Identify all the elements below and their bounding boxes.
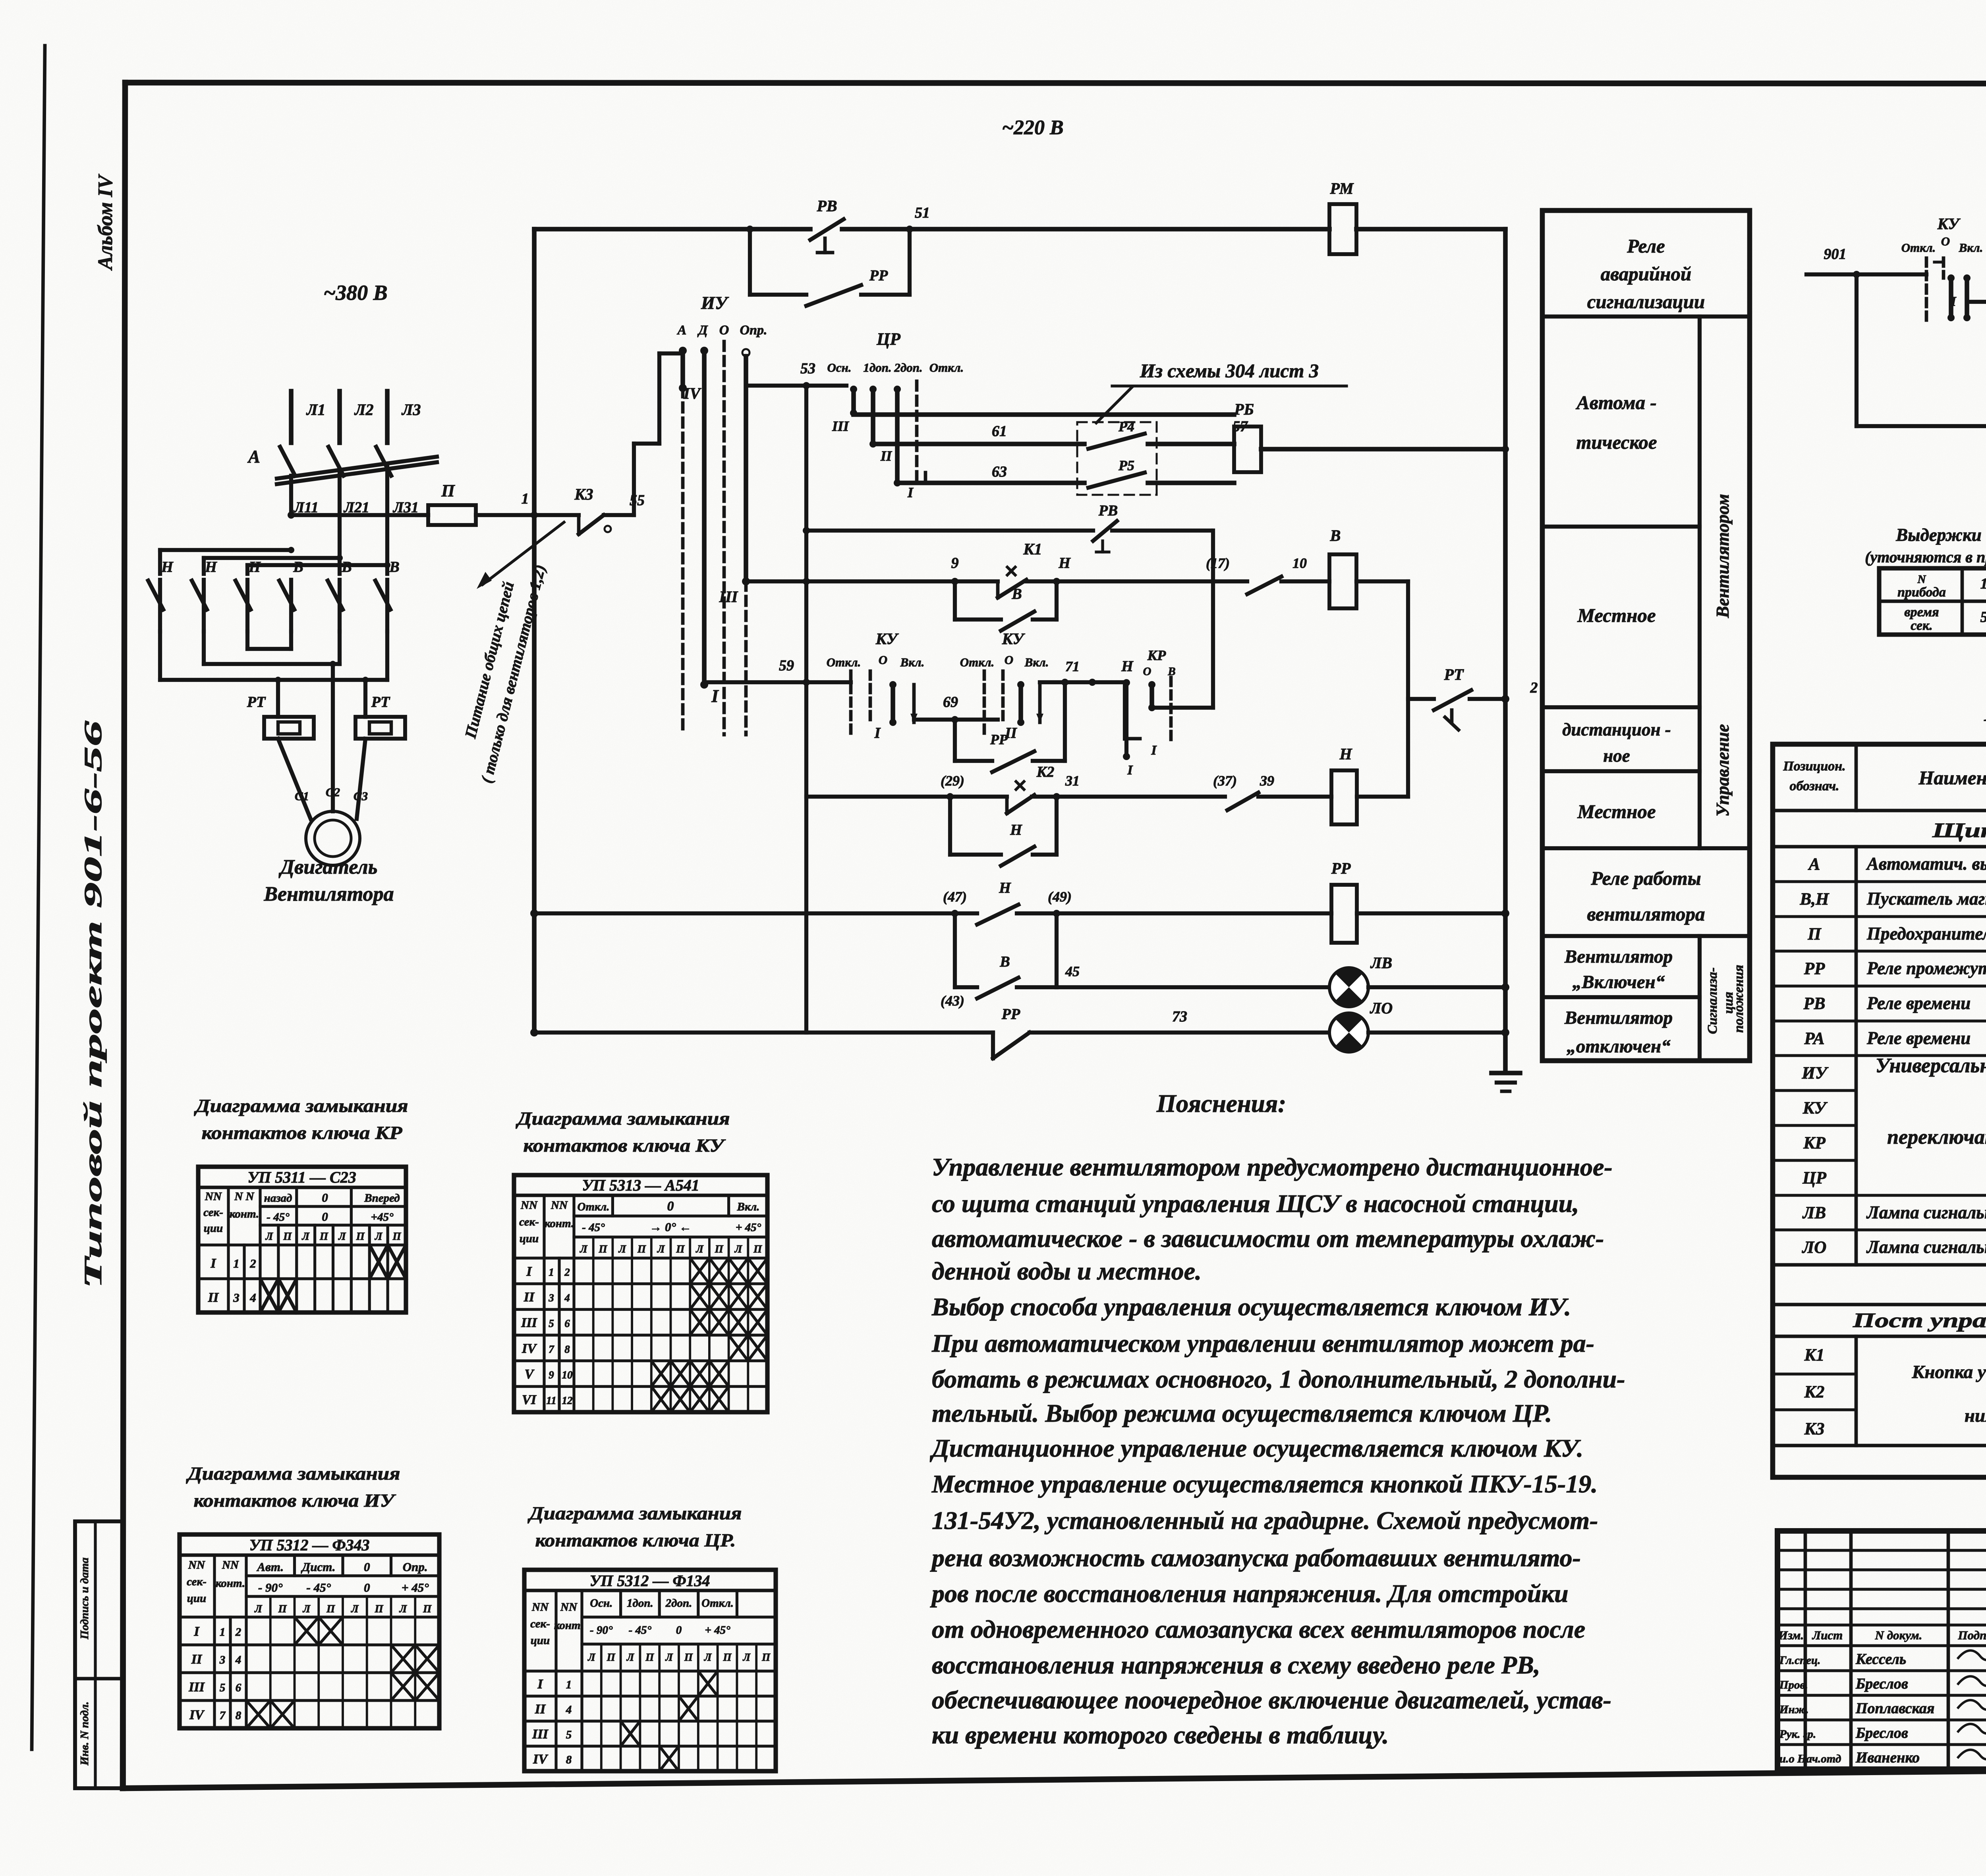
svg-text:Лист: Лист [1812, 1628, 1843, 1642]
svg-text:Поплавская: Поплавская [1855, 1700, 1934, 1717]
svg-text:Автоматич. выключат.: Автоматич. выключат. [1866, 854, 1986, 874]
svg-text:I: I [1950, 294, 1957, 309]
svg-text:IV: IV [189, 1708, 205, 1722]
svg-text:Л: Л [338, 1230, 346, 1242]
svg-text:О: О [879, 653, 887, 667]
svg-text:NN: NN [520, 1199, 538, 1212]
svg-text:конт.: конт. [216, 1577, 245, 1590]
svg-text:IV: IV [683, 384, 702, 402]
svg-text:контактов ключа ЦР.: контактов ключа ЦР. [535, 1530, 736, 1551]
svg-text:Откл.: Откл. [827, 655, 861, 669]
svg-text:Предохранитель: Предохранитель [1866, 924, 1986, 944]
svg-text:ботать в режимах основного,: ботать в режимах основного, 1 дополнител… [932, 1365, 1625, 1393]
svg-text:1: 1 [1980, 575, 1986, 592]
svg-text:1: 1 [522, 490, 529, 507]
svg-text:53: 53 [800, 360, 815, 377]
svg-text:12: 12 [562, 1395, 573, 1407]
svg-text:63: 63 [992, 463, 1007, 480]
svg-text:ИУ: ИУ [701, 293, 729, 313]
svg-text:К1: К1 [1804, 1346, 1825, 1365]
svg-text:При автоматическом управлени: При автоматическом управлении вентилятор… [931, 1329, 1594, 1357]
svg-text:УП 5312 — Ф134: УП 5312 — Ф134 [590, 1572, 710, 1590]
svg-text:РТ: РТ [371, 694, 390, 710]
svg-text:Н: Н [161, 559, 174, 575]
svg-text:III: III [188, 1680, 205, 1695]
svg-text:РА: РА [1804, 1029, 1824, 1048]
svg-text:Откл.: Откл. [701, 1597, 734, 1610]
svg-text:Реле промежуточное: Реле промежуточное [1866, 958, 1986, 978]
svg-text:Лампа сигнальная: Лампа сигнальная [1866, 1202, 1986, 1222]
svg-text:5: 5 [566, 1729, 572, 1741]
svg-text:Откл.: Откл. [578, 1200, 610, 1213]
svg-text:Кессель: Кессель [1855, 1651, 1906, 1668]
svg-text:7: 7 [549, 1343, 554, 1355]
svg-text:тельный. Выбор режима осуще: тельный. Выбор режима осуществляется клю… [932, 1399, 1552, 1427]
svg-text:К2: К2 [1804, 1383, 1825, 1401]
svg-text:Откл.: Откл. [929, 361, 964, 374]
svg-text:I: I [711, 686, 719, 706]
svg-text:А: А [1808, 855, 1820, 874]
svg-text:Местное: Местное [1577, 801, 1656, 822]
svg-text:РВ: РВ [1098, 502, 1118, 519]
svg-text:УП 5311 — С23: УП 5311 — С23 [247, 1168, 356, 1186]
svg-text:Л: Л [265, 1230, 274, 1242]
svg-text:А: А [247, 447, 260, 467]
svg-text:Диаграмма замыкания: Диаграмма замыкания [527, 1503, 742, 1524]
svg-text:Вентилятора: Вентилятора [263, 883, 394, 905]
svg-text:7: 7 [220, 1709, 226, 1722]
svg-text:(37): (37) [1213, 773, 1237, 789]
svg-text:Сигнализа-: Сигнализа- [1705, 967, 1720, 1034]
svg-text:9: 9 [951, 555, 959, 571]
svg-text:КУ: КУ [1802, 1099, 1828, 1117]
svg-text:В: В [999, 953, 1010, 970]
svg-text:1: 1 [233, 1256, 240, 1270]
svg-text:901: 901 [1824, 246, 1847, 262]
svg-text:тическое: тическое [1576, 431, 1657, 453]
svg-text:Бреслов: Бреслов [1855, 1675, 1908, 1692]
svg-text:6: 6 [564, 1318, 570, 1330]
svg-text:О: О [719, 323, 729, 338]
svg-text:ЛО: ЛО [1802, 1238, 1827, 1257]
svg-text:- 45°: - 45° [267, 1211, 290, 1224]
svg-text:10: 10 [562, 1369, 573, 1381]
svg-text:4: 4 [566, 1704, 572, 1716]
svg-text:0: 0 [676, 1624, 682, 1637]
svg-text:контактов ключа КР: контактов ключа КР [202, 1123, 403, 1143]
svg-text:РР: РР [1804, 959, 1825, 978]
svg-text:П: П [283, 1230, 292, 1242]
svg-text:контактов ключа КУ: контактов ключа КУ [524, 1135, 726, 1156]
svg-text:ИУ: ИУ [1801, 1064, 1828, 1083]
svg-text:конт.: конт. [545, 1217, 574, 1230]
svg-text:О: О [1143, 665, 1151, 678]
svg-text:5: 5 [220, 1681, 226, 1694]
svg-text:Щит станций управления Щ: Щит станций управления ЩСУ. [1932, 819, 1986, 842]
svg-text:Н: Н [1010, 822, 1022, 838]
svg-text:Диаграмма замыкания: Диаграмма замыкания [186, 1463, 400, 1484]
svg-text:Откл.: Откл. [960, 655, 995, 669]
svg-text:Л: Л [351, 1603, 359, 1615]
svg-text:NN: NN [531, 1601, 549, 1614]
svg-text:сигнализации: сигнализации [1587, 291, 1705, 313]
svg-text:3: 3 [219, 1654, 226, 1666]
svg-text:РТ: РТ [1444, 666, 1464, 683]
svg-text:П: П [441, 482, 455, 500]
svg-text:В: В [389, 559, 399, 575]
svg-text:+45°: +45° [371, 1211, 394, 1224]
svg-text:ния.: ния. [1965, 1405, 1986, 1426]
svg-text:Диаграмма замыкания: Диаграмма замыкания [516, 1108, 730, 1129]
svg-text:Подпись и дата: Подпись и дата [78, 1558, 91, 1640]
svg-text:+ 45°: + 45° [402, 1581, 429, 1594]
svg-text:(43): (43) [941, 993, 964, 1009]
svg-text:2: 2 [235, 1626, 241, 1639]
svg-text:II: II [880, 448, 893, 464]
svg-text:VI: VI [522, 1393, 537, 1407]
svg-text:8: 8 [564, 1343, 570, 1355]
svg-text:РТ: РТ [247, 694, 266, 710]
svg-text:ки времени которого сведены: ки времени которого сведены в таблицу. [932, 1721, 1389, 1749]
svg-text:IV: IV [533, 1752, 548, 1767]
svg-text:С2: С2 [326, 785, 340, 799]
svg-text:131-54У2, установленный на: 131-54У2, установленный на градирне. Схе… [932, 1506, 1598, 1534]
svg-text:К3: К3 [1804, 1420, 1825, 1438]
svg-text:РР: РР [1001, 1006, 1020, 1023]
svg-text:(29): (29) [941, 773, 964, 789]
svg-text:Л: Л [695, 1243, 704, 1255]
svg-text:положения: положения [1731, 965, 1746, 1033]
svg-text:N докум.: N докум. [1875, 1628, 1922, 1642]
svg-text:Подпись: Подпись [1958, 1628, 1986, 1642]
svg-text:1: 1 [566, 1679, 572, 1691]
svg-text:Вентилятором: Вентилятором [1713, 494, 1733, 618]
svg-text:Выбор способа управления ос: Выбор способа управления осуществляется … [931, 1293, 1571, 1321]
svg-text:Н: Н [248, 559, 261, 575]
svg-text:РБ: РБ [1234, 400, 1254, 418]
svg-text:Л2: Л2 [354, 401, 373, 419]
svg-text:Л1: Л1 [306, 401, 325, 419]
svg-text:Л: Л [399, 1603, 408, 1615]
svg-text:УП 5313 — А541: УП 5313 — А541 [582, 1176, 699, 1194]
svg-text:сек-: сек- [187, 1575, 207, 1588]
svg-text:4: 4 [249, 1291, 256, 1305]
svg-text:71: 71 [1065, 658, 1080, 674]
svg-text:ЦР: ЦР [876, 330, 900, 349]
svg-text:(49): (49) [1048, 889, 1072, 905]
svg-text:С1: С1 [295, 789, 309, 803]
svg-text:73: 73 [1172, 1008, 1187, 1025]
svg-text:Л: Л [303, 1603, 311, 1615]
svg-text:П: П [761, 1651, 771, 1663]
svg-text:I: I [193, 1624, 200, 1639]
svg-text:Л: Л [580, 1243, 588, 1255]
svg-text:Пров.: Пров. [1779, 1679, 1808, 1691]
svg-text:В: В [1011, 586, 1022, 602]
svg-text:КУ: КУ [1937, 215, 1961, 233]
svg-text:Л: Л [734, 1243, 743, 1255]
svg-text:ции: ции [520, 1232, 539, 1245]
svg-text:Изм.: Изм. [1778, 1628, 1804, 1642]
svg-text:П: П [715, 1243, 724, 1255]
svg-text:Наименование: Наименование [1918, 767, 1986, 789]
svg-text:П: П [1807, 925, 1822, 944]
svg-text:РВ: РВ [816, 197, 837, 215]
svg-text:I: I [537, 1677, 543, 1692]
svg-text:аварийной: аварийной [1601, 263, 1692, 285]
svg-text:I: I [874, 725, 881, 741]
svg-text:Типовой проект 901-6-56: Типовой проект 901-6-56 [79, 720, 107, 1289]
svg-text:Пускатель магнитн.: Пускатель магнитн. [1866, 889, 1986, 909]
svg-text:Осн.: Осн. [590, 1597, 612, 1610]
svg-text:55: 55 [630, 492, 645, 509]
svg-text:Л: Л [301, 1230, 310, 1242]
svg-text:ции: ции [204, 1222, 223, 1235]
svg-text:ЛО: ЛО [1370, 999, 1393, 1017]
svg-text:и.о Нач.отд: и.о Нач.отд [1779, 1752, 1841, 1765]
svg-text:0: 0 [364, 1581, 370, 1594]
svg-text:автоматическое - в зависимост: автоматическое - в зависимости от темпер… [932, 1224, 1604, 1253]
svg-text:сек.: сек. [1911, 618, 1932, 633]
svg-text:Позицион.: Позицион. [1783, 759, 1845, 774]
svg-text:- 90°: - 90° [258, 1581, 283, 1594]
svg-text:II: II [535, 1702, 546, 1717]
svg-text:обеспечивающее поочередное в: обеспечивающее поочередное включение дви… [932, 1686, 1611, 1714]
svg-text:51: 51 [915, 205, 930, 221]
svg-text:Инж.: Инж. [1779, 1703, 1809, 1716]
svg-text:Реле времени: Реле времени [1866, 1028, 1971, 1048]
svg-text:Двигатель: Двигатель [279, 856, 378, 878]
svg-text:Опр.: Опр. [403, 1560, 428, 1574]
svg-text:время: время [1904, 605, 1939, 620]
svg-text:Выдержки времени реле РВ: Выдержки времени реле РВ [1895, 525, 1986, 545]
svg-text:П: П [676, 1243, 685, 1255]
svg-text:4: 4 [564, 1292, 570, 1304]
svg-text:Реле работы: Реле работы [1590, 867, 1701, 889]
svg-text:Пост управления ПКУ-15-19: Пост управления ПКУ-15-19. 131-54У2 [1853, 1309, 1986, 1332]
svg-text:П: П [607, 1651, 616, 1663]
svg-text:Из схемы 304 лист 3: Из схемы 304 лист 3 [1140, 360, 1319, 382]
svg-text:Реле времени: Реле времени [1866, 993, 1971, 1013]
svg-text:В: В [293, 559, 303, 575]
svg-text:Н: Н [1121, 658, 1134, 675]
svg-text:31: 31 [1065, 773, 1080, 789]
svg-text:Автома -: Автома - [1575, 392, 1656, 413]
svg-text:В,Н: В,Н [1800, 890, 1830, 909]
svg-text:0: 0 [364, 1560, 370, 1574]
svg-text:III: III [719, 588, 738, 606]
svg-text:5: 5 [1980, 609, 1986, 625]
svg-text:УП 5312 — Ф343: УП 5312 — Ф343 [249, 1536, 370, 1554]
svg-text:0: 0 [667, 1199, 674, 1214]
svg-text:Н: Н [1339, 745, 1352, 763]
svg-text:Л3: Л3 [401, 401, 421, 419]
svg-text:контактов ключа ИУ: контактов ключа ИУ [194, 1490, 397, 1511]
svg-text:П: П [356, 1230, 365, 1242]
svg-text:ции: ции [187, 1592, 206, 1605]
svg-text:Опр.: Опр. [740, 323, 767, 338]
svg-text:2: 2 [249, 1256, 256, 1270]
svg-text:Управление вентилятором пред: Управление вентилятором предусмотрено ди… [932, 1153, 1613, 1181]
svg-text:В: В [341, 559, 352, 575]
svg-text:Местное: Местное [1577, 604, 1656, 626]
svg-text:КУ: КУ [1002, 630, 1026, 648]
svg-text:Л: Л [704, 1651, 712, 1663]
svg-text:РР: РР [869, 267, 888, 284]
svg-text:ции: ции [531, 1634, 550, 1647]
svg-text:Вперед: Вперед [364, 1192, 400, 1204]
svg-text:61: 61 [992, 423, 1007, 440]
svg-text:N N: N N [234, 1190, 254, 1203]
svg-text:ров после восстановления на: ров после восстановления напряжения. Для… [930, 1579, 1569, 1608]
svg-text:2: 2 [564, 1266, 570, 1278]
svg-text:~380 В: ~380 В [323, 281, 387, 305]
svg-text:КУ: КУ [875, 630, 899, 648]
svg-text:переключатель: переключатель [1887, 1126, 1986, 1148]
svg-text:9: 9 [549, 1369, 554, 1381]
svg-text:+ 45°: + 45° [705, 1624, 730, 1637]
svg-text:Бреслов: Бреслов [1855, 1725, 1908, 1741]
svg-text:3: 3 [548, 1292, 554, 1304]
svg-text:П: П [375, 1603, 384, 1615]
svg-text:III: III [521, 1316, 537, 1330]
svg-text:Л: Л [665, 1651, 673, 1663]
svg-text:конт.: конт. [554, 1619, 583, 1632]
svg-text:Н: Н [999, 880, 1011, 896]
svg-text:Откл.: Откл. [1901, 241, 1936, 255]
svg-text:вентилятора: вентилятора [1587, 903, 1705, 925]
svg-text:Инв. N подл.: Инв. N подл. [78, 1701, 91, 1766]
svg-text:Вентилятор: Вентилятор [1564, 1007, 1673, 1028]
svg-text:Гл.спец.: Гл.спец. [1779, 1654, 1820, 1667]
svg-text:Универсальный: Универсальный [1876, 1054, 1986, 1077]
svg-text:П: П [637, 1243, 646, 1255]
svg-text:Осн.: Осн. [827, 361, 851, 374]
svg-text:восстановления напряжения в: восстановления напряжения в схему введен… [932, 1651, 1540, 1679]
svg-text:КР: КР [1147, 647, 1166, 663]
svg-text:N: N [1917, 573, 1926, 586]
svg-text:5: 5 [549, 1318, 554, 1330]
svg-text:П: П [684, 1651, 693, 1663]
svg-text:11: 11 [546, 1395, 556, 1407]
svg-text:РМ: РМ [1329, 179, 1354, 197]
svg-text:I: I [1151, 743, 1157, 758]
svg-text:1доп.: 1доп. [627, 1597, 653, 1610]
svg-text:III: III [832, 418, 850, 434]
svg-text:О: О [1941, 234, 1950, 248]
svg-text:Вкл.: Вкл. [1024, 655, 1049, 669]
svg-text:от одновременного самозапуск: от одновременного самозапуска всех венти… [932, 1615, 1585, 1643]
svg-text:ЦР: ЦР [1802, 1169, 1826, 1187]
svg-text:Дист.: Дист. [301, 1560, 335, 1574]
svg-text:NN: NN [222, 1559, 239, 1571]
svg-text:NN: NN [205, 1190, 222, 1203]
svg-text:NN: NN [560, 1601, 578, 1614]
svg-text:59: 59 [779, 657, 794, 674]
svg-text:Вкл.: Вкл. [737, 1200, 760, 1213]
svg-text:К2: К2 [1036, 764, 1055, 780]
svg-text:прибода: прибода [1897, 585, 1946, 600]
svg-text:Иваненко: Иваненко [1855, 1749, 1920, 1766]
svg-text:ное: ное [1603, 746, 1630, 766]
svg-text:Д: Д [697, 323, 708, 338]
svg-text:Управление: Управление [1713, 724, 1733, 816]
svg-text:III: III [532, 1727, 549, 1742]
svg-text:Перечень элементов: Перечень элементов [1984, 697, 1986, 727]
svg-text:„отключен“: „отключен“ [1567, 1036, 1670, 1057]
svg-text:Р4: Р4 [1118, 419, 1134, 434]
svg-text:Л: Л [743, 1651, 751, 1663]
svg-text:Кнопка управле -: Кнопка управле - [1912, 1362, 1986, 1382]
svg-text:I: I [526, 1264, 532, 1279]
svg-text:2доп.: 2доп. [665, 1597, 692, 1610]
svg-text:- 45°: - 45° [629, 1624, 652, 1637]
svg-text:Вкл.: Вкл. [1959, 241, 1983, 255]
svg-text:дистанцион -: дистанцион - [1562, 720, 1671, 739]
svg-text:45: 45 [1065, 963, 1080, 979]
svg-text:II: II [208, 1290, 219, 1305]
svg-text:Лампа сигнальная: Лампа сигнальная [1866, 1237, 1986, 1257]
svg-text:С3: С3 [354, 789, 368, 803]
svg-text:Рук. гр.: Рук. гр. [1779, 1728, 1816, 1741]
svg-text:ЛВ: ЛВ [1802, 1204, 1826, 1222]
svg-text:со щита станций управления: со щита станций управления ЩСУ в насосно… [932, 1189, 1579, 1218]
svg-text:1доп.: 1доп. [863, 361, 891, 374]
svg-text:IV: IV [522, 1341, 537, 1356]
svg-text:назад: назад [264, 1192, 292, 1204]
svg-text:К1: К1 [1023, 540, 1042, 558]
svg-text:конт.: конт. [230, 1208, 259, 1220]
svg-text:- 90°: - 90° [590, 1624, 613, 1637]
svg-text:8: 8 [236, 1709, 241, 1722]
svg-text:КР: КР [1803, 1134, 1826, 1152]
svg-text:Реле: Реле [1627, 235, 1665, 257]
svg-text:0: 0 [322, 1210, 328, 1224]
svg-text:39: 39 [1260, 773, 1274, 789]
svg-text:(47): (47) [943, 889, 967, 905]
svg-text:I: I [907, 484, 914, 500]
svg-text:4: 4 [235, 1654, 241, 1666]
svg-text:К3: К3 [574, 485, 593, 503]
svg-text:О: О [1005, 653, 1013, 667]
svg-text:Альбом IV: Альбом IV [94, 174, 117, 271]
svg-text:- 45°: - 45° [307, 1581, 331, 1594]
svg-text:П: П [645, 1651, 654, 1663]
svg-text:П: П [319, 1230, 328, 1242]
svg-text:П: П [753, 1243, 762, 1255]
svg-text:сек-: сек- [203, 1206, 223, 1219]
svg-text:сек-: сек- [519, 1216, 539, 1228]
svg-text:Л: Л [657, 1243, 665, 1255]
svg-text:Н: Н [205, 559, 217, 575]
svg-text:NN: NN [188, 1559, 205, 1571]
svg-text:Дистанционное управление осу: Дистанционное управление осуществляется … [930, 1434, 1583, 1462]
svg-text:Л: Л [375, 1230, 383, 1242]
svg-text:Диаграмма замыкания: Диаграмма замыкания [194, 1096, 408, 1116]
svg-text:V: V [525, 1367, 535, 1382]
svg-text:А: А [677, 323, 687, 338]
svg-text:П: П [278, 1603, 287, 1615]
svg-text:сек-: сек- [530, 1617, 550, 1630]
svg-text:→ 0° ←: → 0° ← [649, 1220, 691, 1234]
svg-text:+ 45°: + 45° [736, 1221, 761, 1234]
svg-text:денной воды и местное.: денной воды и местное. [932, 1257, 1202, 1285]
svg-text:(17): (17) [1206, 555, 1230, 571]
svg-text:П: П [423, 1603, 432, 1615]
svg-text:рена возможность самозапуска: рена возможность самозапуска работавших … [930, 1544, 1581, 1572]
svg-text:0: 0 [322, 1191, 328, 1204]
svg-text:В: В [1330, 527, 1341, 544]
